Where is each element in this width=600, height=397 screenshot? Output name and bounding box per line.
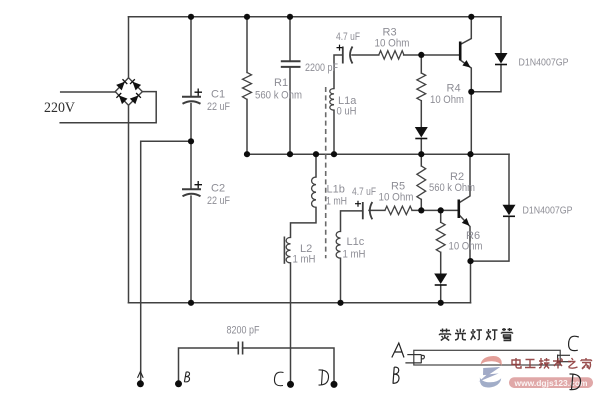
node rail2 / 2200pF (287, 151, 293, 157)
terminal D handwritten label (319, 370, 329, 386)
node base Q2 / R5 R2 (418, 207, 424, 213)
wire rail2 (second horizontal rail) (247, 153, 509, 155)
tube left filament (421, 355, 424, 364)
inductor L1c 1mH (336, 231, 340, 258)
svg-text:10 Ohm: 10 Ohm (379, 192, 414, 204)
node C1/C2 midpoint (188, 138, 194, 144)
svg-text:10 Ohm: 10 Ohm (430, 94, 464, 106)
tube lead D (558, 361, 571, 363)
capacitor 8200pF (238, 342, 242, 355)
wire Q1 emitter (460, 60, 471, 92)
svg-text:560 k Ohm: 560 k Ohm (429, 182, 475, 194)
wire midpoint to terminal A (141, 141, 191, 383)
svg-text:560 k Ohm: 560 k Ohm (255, 90, 302, 102)
svg-text:220V: 220V (44, 100, 75, 116)
wire R4 bottom to diode D3 (420, 101, 422, 127)
wire D3 cathode to rail2 (420, 139, 422, 155)
wire R2 top from rail2 (420, 154, 422, 166)
char 管 (502, 328, 513, 341)
terminal C dot (287, 381, 294, 388)
char 之 (568, 358, 578, 368)
wire 2200pF top lead (289, 17, 291, 62)
svg-text:C2: C2 (211, 183, 225, 195)
wire bottom rail (129, 302, 471, 304)
wire L1a bottom to rail2 (333, 110, 335, 154)
char 电 (512, 358, 521, 368)
wire L2 bottom to terminal C (290, 263, 292, 385)
svg-text:L1c: L1c (347, 236, 365, 248)
L2 core bar (283, 237, 285, 264)
watermark banner (509, 377, 593, 388)
C2 plus sign (195, 181, 203, 188)
wire C3 to R3 (352, 54, 379, 56)
lamp label A handwritten (392, 343, 404, 358)
bridge diode lower-right (130, 93, 141, 104)
node base Q2 / R6 (438, 207, 444, 213)
node top rail / C1 (188, 14, 194, 20)
wire Q2 emitter (459, 215, 470, 262)
svg-text:8200 pF: 8200 pF (227, 325, 260, 337)
wire Q1 emitter to rail2 (470, 92, 472, 154)
capacitor C1 22uF (182, 97, 201, 104)
resistor R1 560k (243, 72, 252, 99)
node top rail / 2200pF (287, 14, 293, 20)
wire Q1 collector (460, 17, 471, 45)
wire L1c top to C4 4.7uF (341, 211, 363, 232)
node Q1 base / R3 R4 (418, 52, 424, 58)
wire C4 to R5 (369, 209, 385, 211)
node rail2 / R2 R4 (418, 151, 424, 157)
wire R2 bottom to base wire (420, 199, 422, 210)
capacitor C2 22uF (182, 189, 201, 196)
char 光 (455, 329, 466, 341)
char 术 (553, 358, 563, 369)
char 工 (525, 360, 536, 368)
svg-text:R1: R1 (274, 77, 288, 89)
svg-text:10 Ohm: 10 Ohm (375, 38, 410, 50)
tube right filament (557, 355, 559, 364)
wire L1a top to C3 4.7uF (334, 55, 342, 89)
node Q2 emitter / D2 (467, 258, 473, 264)
char 灯 (2) (486, 329, 497, 340)
node top rail / R1 (244, 14, 250, 20)
capacitor C4 4.7uF (mid) (363, 202, 373, 219)
resistor R4 10 Ohm (417, 73, 426, 101)
terminal B dot (175, 380, 182, 387)
C4 plus sign (355, 201, 361, 207)
capacitor 2200pF (281, 61, 301, 67)
watermark logo (red arc, blue bolt, blue arc) (479, 356, 502, 388)
resistor R5 10 Ohm (385, 206, 412, 214)
wire 220V neutral to bridge right (60, 92, 156, 123)
title 荧光灯灯管 (hand-drawn strokes) (440, 328, 513, 341)
wire D1 anode from top rail (500, 17, 502, 53)
svg-text:22 uF: 22 uF (207, 195, 230, 207)
node rail2 / R1 (244, 151, 250, 157)
tube lead B (405, 362, 421, 364)
fluorescent tube body (414, 350, 560, 365)
wire top rail (129, 16, 502, 18)
tube lead A (407, 354, 421, 356)
watermark text 电工技术之家 (hand-drawn strokes) (512, 358, 592, 369)
wire R3 to Q1 base (404, 54, 460, 56)
wire R6 top lead (440, 210, 442, 222)
node bottom rail / L1c (337, 300, 343, 306)
transistor Q1 (460, 42, 470, 68)
diode D1 D1N4007GP (495, 53, 508, 65)
wire D4 cathode to bottom rail (440, 285, 442, 303)
svg-text:10 Ohm: 10 Ohm (449, 241, 483, 253)
char 灯 (1) (471, 329, 482, 340)
svg-text:C1: C1 (211, 89, 225, 101)
wire L1b hang from rail2 (315, 154, 317, 177)
transformer core dashed line (325, 87, 327, 258)
lamp label D handwritten (570, 374, 581, 390)
diode D3 (below R4) (415, 127, 428, 139)
wire C2 top (190, 141, 192, 189)
tube lead C (558, 354, 570, 356)
inductor L1a 0uH (330, 89, 334, 111)
svg-text:1 mH: 1 mH (343, 249, 366, 261)
svg-text:R4: R4 (447, 83, 461, 95)
wire D2 anode from rail2 (508, 154, 510, 205)
wire R1 bottom lead to rail2 (246, 99, 248, 154)
wire D2 cathode to emitter node (471, 216, 510, 261)
svg-text:4.7 uF: 4.7 uF (352, 186, 376, 198)
node Q1 emitter / D1 (468, 89, 474, 95)
svg-text:22 uF: 22 uF (207, 101, 230, 113)
node rail2 / L1b (313, 151, 319, 157)
node C1 top junction (190, 17, 192, 97)
svg-text:www.dgjs123.com: www.dgjs123.com (513, 378, 587, 388)
svg-text:2200 pF: 2200 pF (305, 62, 338, 74)
resistor R3 10 Ohm (379, 51, 404, 59)
wire R4 top lead (420, 55, 422, 73)
char 技 (539, 358, 550, 369)
bridge rectifier BR1 (115, 78, 142, 106)
wire 2200pF bottom lead (289, 67, 291, 154)
wire base node to Q2 base (441, 209, 459, 211)
node rail2 / Q1 emitter Q2 collector (467, 151, 473, 157)
C1 plus sign (195, 89, 203, 96)
C3 plus sign (337, 45, 343, 51)
char 荧 (440, 329, 451, 341)
node bottom rail / D4 (438, 300, 444, 306)
wire 8200pF to terminal D riser (243, 348, 335, 384)
svg-text:D1N4007GP: D1N4007GP (519, 58, 569, 69)
svg-text:1 mH: 1 mH (326, 196, 347, 208)
node rail2 / L1a (331, 151, 337, 157)
terminal B handwritten label (184, 372, 189, 382)
char 家 (581, 358, 592, 369)
diode D4 (below R6) (434, 274, 447, 286)
terminal D dot (331, 381, 338, 388)
wire L1b bottom jog to L2 (291, 207, 317, 237)
capacitor C3 4.7uF (top) (343, 47, 353, 64)
bridge diode upper-right (130, 79, 141, 90)
wire Q2 emitter node to bottom rail (470, 261, 472, 303)
node top rail / Q1 collector (468, 14, 474, 20)
terminal A arrow mark (138, 372, 144, 378)
bridge diode lower-left (116, 93, 127, 104)
svg-text:L1b: L1b (327, 184, 345, 196)
wire C2 bottom to bottom rail (190, 196, 192, 303)
wire R1 top lead (246, 17, 248, 73)
wire L1c bottom to bottom rail (340, 258, 342, 303)
wire D1 cathode to emitter node (471, 65, 501, 92)
resistor R2 560k (417, 166, 426, 200)
wire Q2 collector (459, 154, 470, 203)
svg-text:D1N4007GP: D1N4007GP (523, 206, 573, 217)
svg-text:1 mH: 1 mH (293, 254, 316, 266)
terminal A dot (137, 380, 144, 387)
inductor L1b 1mH (312, 177, 316, 207)
transistor Q2 (459, 200, 470, 226)
bridge diode upper-left (116, 79, 127, 90)
wire bridge bottom to bottom rail (128, 105, 130, 302)
wire terminal B riser to 8200pF (179, 348, 239, 384)
node bottom rail / C2 (188, 300, 194, 306)
inductor L2 1mH (286, 237, 290, 262)
resistor R6 10 Ohm (436, 222, 445, 252)
wire R5 to base node (412, 209, 441, 211)
diode D2 D1N4007GP (503, 205, 516, 217)
svg-text:4.7 uF: 4.7 uF (336, 31, 360, 43)
lamp label B handwritten (393, 367, 399, 383)
terminal C handwritten label (274, 372, 283, 386)
svg-text:0 uH: 0 uH (337, 106, 357, 118)
wire C1 bottom to midpoint junction (190, 104, 192, 142)
wire R6 bottom to diode D4 (440, 252, 442, 273)
wire 220V live to bridge left (61, 91, 115, 93)
wire left column from rail to bridge top (128, 17, 130, 78)
lamp label C handwritten (569, 336, 579, 350)
